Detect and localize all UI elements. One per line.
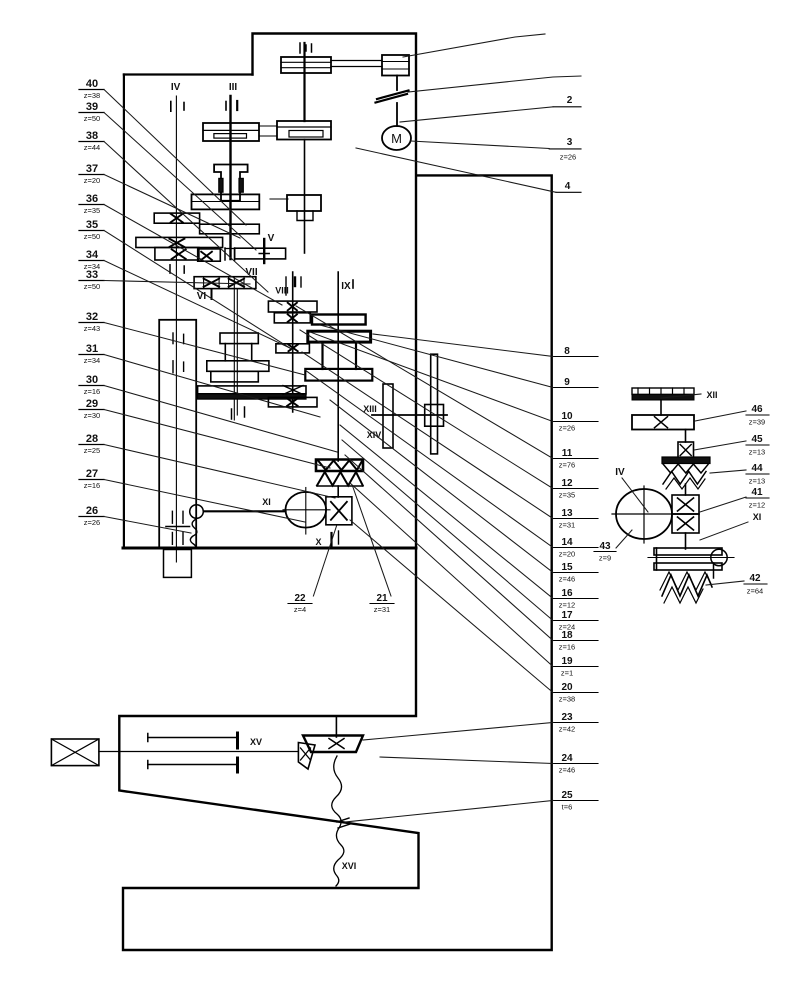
gear IX-1 bar (312, 315, 366, 325)
slip clutch symbol (377, 91, 409, 100)
head box left wall (124, 73, 253, 75)
column vertical gear bar (431, 354, 438, 454)
svg-text:2: 2 (567, 95, 573, 106)
svg-text:z=38: z=38 (559, 695, 575, 704)
wavy cross ticks (337, 818, 349, 822)
motor pulley (382, 55, 409, 76)
twin gear on shafts VI and VII (194, 277, 256, 289)
svg-text:10: 10 (561, 411, 573, 422)
svg-text:z=9: z=9 (599, 554, 611, 563)
long gear lower bar (198, 394, 306, 399)
cone gear step3 (211, 371, 258, 382)
svg-text:IV: IV (171, 82, 181, 93)
column gear box (425, 405, 444, 427)
shaft IX vertical (337, 272, 339, 461)
gear on shaft III row (200, 224, 260, 234)
table screw box (51, 739, 99, 766)
svg-text:z=46: z=46 (559, 766, 575, 775)
svg-text:19: 19 (561, 656, 573, 667)
svg-text:z=38: z=38 (84, 91, 100, 100)
svg-text:27: 27 (86, 468, 98, 480)
svg-text:44: 44 (751, 463, 763, 474)
quill inner dashes (172, 333, 174, 344)
svg-text:XVI: XVI (342, 861, 357, 871)
svg-text:z=26: z=26 (560, 153, 576, 162)
gear on shaft XIII (edge-on) (383, 384, 393, 448)
svg-text:18: 18 (561, 630, 573, 641)
svg-text:X: X (315, 537, 321, 547)
svg-text:41: 41 (751, 487, 763, 498)
shaft VII end ticks (231, 409, 233, 419)
svg-text:z=16: z=16 (559, 643, 575, 652)
svg-text:z=1: z=1 (561, 669, 573, 678)
svg-text:15: 15 (561, 562, 573, 573)
svg-text:32: 32 (86, 311, 98, 323)
svg-text:z=39: z=39 (749, 418, 765, 427)
flexible shaft wavy line (332, 756, 344, 886)
gear on shaft III (wide) (192, 194, 260, 209)
quill cross tick (166, 526, 190, 528)
pinion circle on XI (190, 505, 204, 519)
svg-text:z=13: z=13 (749, 477, 765, 486)
svg-text:z=25: z=25 (84, 446, 100, 455)
shaft XI horizontal (204, 510, 286, 512)
spindle shaft IV (175, 96, 177, 562)
quill protrusion below head (164, 550, 192, 578)
callout line top pulley (403, 34, 545, 57)
gear on shaft IV row2 (wide) (136, 237, 223, 247)
bracket below gear II (297, 211, 313, 221)
machine outline (119, 34, 551, 951)
worm wheel 42 (662, 575, 712, 596)
svg-text:t=6: t=6 (562, 803, 573, 812)
svg-text:22: 22 (294, 593, 306, 604)
svg-text:16: 16 (561, 588, 573, 599)
svg-text:z=43: z=43 (84, 324, 100, 333)
quill rack teeth (wavy) (190, 519, 197, 548)
gear 45 box (678, 442, 694, 458)
svg-text:z=44: z=44 (84, 143, 100, 152)
svg-text:z=30: z=30 (84, 411, 100, 420)
cone gear step1 (220, 333, 258, 344)
shaft III end bracket (224, 248, 226, 260)
svg-text:V: V (268, 233, 275, 244)
gear VIII-1 (268, 301, 317, 312)
svg-text:38: 38 (86, 130, 98, 142)
shaft II lower end (304, 140, 306, 254)
gear on shaft III (top) (203, 123, 259, 141)
motor M (382, 126, 411, 150)
shaft VIII vertical (292, 272, 294, 412)
svg-text:z=76: z=76 (559, 461, 575, 470)
svg-text:40: 40 (86, 78, 98, 90)
svg-text:14: 14 (561, 537, 573, 548)
svg-text:35: 35 (86, 219, 98, 231)
svg-text:z=12: z=12 (749, 501, 765, 510)
svg-text:z=42: z=42 (559, 725, 575, 734)
svg-text:37: 37 (86, 163, 98, 175)
svg-text:36: 36 (86, 193, 98, 205)
svg-text:z=50: z=50 (84, 114, 100, 123)
bevel circle on X (711, 549, 727, 565)
gear on shaft V (235, 248, 286, 259)
svg-text:z=20: z=20 (559, 550, 575, 559)
svg-text:z=16: z=16 (84, 387, 100, 396)
belt (331, 60, 382, 62)
svg-text:9: 9 (564, 377, 570, 388)
wire gear46 down (685, 430, 687, 443)
gear on shaft IV row1 (154, 213, 199, 223)
svg-text:8: 8 (564, 346, 570, 357)
svg-text:30: 30 (86, 374, 98, 386)
bevel 44 top bar (662, 457, 710, 464)
shaft VII vertical (233, 277, 235, 420)
svg-text:XI: XI (262, 497, 271, 507)
clutch box on shaft X (326, 497, 352, 525)
sliding clutch on shaft III (H block) (214, 165, 248, 201)
gear VIII-3 (small) (276, 344, 310, 353)
bevel/worm bottom row (317, 472, 363, 486)
wire worm to clutch box (337, 486, 339, 497)
svg-text:25: 25 (561, 790, 573, 801)
svg-text:z=31: z=31 (559, 521, 575, 530)
svg-text:34: 34 (86, 249, 99, 261)
long gear on spindle (wide) (198, 386, 306, 394)
connector lines between gears (259, 125, 277, 127)
quill sleeve (159, 320, 196, 549)
svg-text:28: 28 (86, 433, 98, 445)
svg-text:z=46: z=46 (559, 575, 575, 584)
svg-text:z=16: z=16 (84, 481, 100, 490)
wire rack to gear 46 (660, 400, 662, 415)
shaft X horizontal gears (654, 548, 722, 555)
svg-text:13: 13 (561, 508, 573, 519)
svg-text:4: 4 (565, 181, 571, 192)
svg-text:31: 31 (86, 343, 98, 355)
svg-text:z=20: z=20 (84, 176, 100, 185)
rack bar XII (632, 388, 694, 394)
shaft VI stub (211, 289, 213, 299)
svg-text:z=64: z=64 (747, 587, 763, 596)
arm bevel gear pair (303, 736, 363, 753)
svg-text:XV: XV (250, 737, 262, 747)
svg-text:z=4: z=4 (294, 605, 306, 614)
svg-text:z=34: z=34 (84, 356, 100, 365)
cone gear step2 (207, 361, 269, 372)
shaft V stub (263, 239, 265, 263)
svg-text:29: 29 (86, 398, 98, 410)
svg-text:45: 45 (751, 434, 763, 445)
svg-text:33: 33 (86, 269, 98, 281)
horizontal shaft XIII/XIV (372, 414, 447, 416)
svg-text:42: 42 (749, 573, 761, 584)
svg-text:z=50: z=50 (84, 232, 100, 241)
gear on shaft IV row3 (155, 248, 199, 261)
shaft II vertical (303, 43, 305, 121)
svg-text:z=13: z=13 (749, 448, 765, 457)
svg-text:11: 11 (562, 448, 573, 459)
gear IX hub lines (321, 342, 323, 369)
svg-text:z=26: z=26 (84, 518, 100, 527)
svg-text:XI: XI (753, 512, 762, 522)
shaft III vertical (229, 96, 231, 259)
svg-text:3: 3 (567, 137, 573, 148)
sleeve gear row3 right (198, 249, 221, 261)
vertical shaft X in arm (335, 716, 337, 737)
gear VIII bottom (268, 397, 317, 407)
bevel/worm top row (316, 460, 363, 472)
pulley on shaft II (281, 57, 331, 73)
svg-text:IX: IX (341, 281, 351, 292)
svg-text:IV: IV (615, 467, 625, 478)
svg-text:z=31: z=31 (374, 605, 390, 614)
bevel 44 teeth (663, 464, 708, 473)
svg-text:M: M (391, 131, 402, 146)
clamp bracket top (148, 737, 238, 739)
svg-text:III: III (229, 82, 238, 93)
wire 44 to 41 (685, 484, 687, 495)
svg-text:XII: XII (706, 390, 717, 400)
shaft X centerline (648, 557, 734, 559)
svg-text:z=12: z=12 (559, 601, 575, 610)
gear VIII-2 (274, 313, 310, 323)
shaft IV end ticks (169, 265, 171, 273)
gear on shaft II (lower) (287, 195, 321, 211)
wire pulley to clutch (396, 76, 398, 91)
cone gear neck (224, 344, 226, 361)
handwheel circle on shaft XI (286, 492, 327, 528)
gear IX-3 (lower) (305, 369, 372, 381)
clamp bracket bottom (148, 764, 238, 766)
gear 46 (632, 415, 694, 430)
wire 41 down (685, 533, 687, 549)
svg-text:VIII: VIII (275, 286, 289, 296)
head bottom edge (123, 547, 416, 550)
svg-text:43: 43 (599, 541, 611, 552)
shaft II top tick marks (299, 43, 301, 53)
svg-text:12: 12 (561, 478, 573, 489)
svg-text:26: 26 (86, 505, 98, 517)
svg-text:23: 23 (561, 712, 573, 723)
svg-text:17: 17 (561, 610, 573, 621)
clutch boxes 41 (672, 495, 699, 514)
svg-text:39: 39 (86, 101, 98, 113)
gear z on shaft II (big) (277, 121, 331, 140)
gear IX-2 (big) (308, 331, 371, 342)
svg-text:z=50: z=50 (84, 282, 100, 291)
svg-text:24: 24 (561, 753, 573, 764)
callout line clutch (408, 76, 581, 92)
svg-text:20: 20 (561, 682, 573, 693)
svg-text:z=35: z=35 (559, 491, 575, 500)
svg-text:46: 46 (751, 404, 763, 415)
wire clutch to motor (396, 103, 398, 126)
handwheel 43 (616, 489, 672, 539)
arm centerline shaft XV (99, 751, 299, 753)
svg-text:21: 21 (376, 593, 388, 604)
svg-text:z=35: z=35 (84, 206, 100, 215)
svg-text:z=26: z=26 (559, 424, 575, 433)
